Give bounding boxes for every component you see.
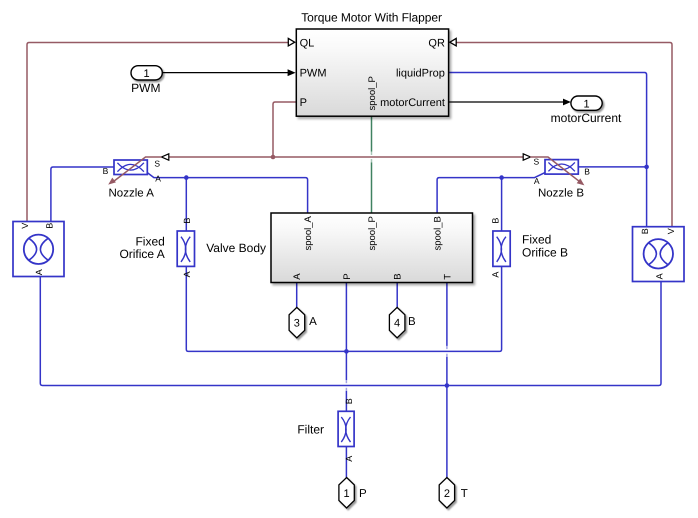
- filter block: [338, 411, 354, 446]
- svg-text:PWM: PWM: [300, 68, 327, 80]
- wire QR (torque motor QR to right spool orifice V): [456, 43, 672, 227]
- junction dot P/S: [271, 155, 276, 160]
- svg-text:A: A: [344, 456, 354, 462]
- svg-text:A: A: [655, 273, 665, 279]
- svg-text:B: B: [393, 273, 404, 279]
- wire filter A to port 1: [345, 447, 347, 478]
- svg-text:motorCurrent: motorCurrent: [380, 97, 445, 109]
- svg-text:spool_A: spool_A: [303, 216, 314, 251]
- wire T line (valve body T to port 2, crossing P rail): [446, 283, 448, 478]
- wire P / S network (torque motor P to nozzle S ports): [169, 102, 523, 157]
- fixed orifice B block: [493, 231, 510, 266]
- svg-text:T: T: [442, 274, 453, 280]
- wire valve body B to port 4: [396, 283, 398, 308]
- svg-text:B: B: [408, 316, 416, 328]
- svg-text:2: 2: [444, 488, 450, 500]
- filter curves: [341, 417, 350, 442]
- svg-text:Filter: Filter: [297, 422, 324, 436]
- svg-text:spool_P: spool_P: [367, 216, 378, 250]
- svg-text:PWM: PWM: [131, 81, 160, 95]
- left spool orifice arcs: [29, 238, 48, 260]
- svg-text:B: B: [490, 218, 500, 224]
- port 1 hexagon P: [339, 478, 354, 509]
- port 2 hexagon T: [439, 478, 454, 509]
- wire PWM signal: [163, 72, 289, 74]
- svg-text:A: A: [182, 271, 192, 277]
- svg-text:V: V: [666, 228, 676, 234]
- svg-text:Valve Body: Valve Body: [206, 241, 266, 255]
- nozzle B variable arrow: [530, 157, 580, 182]
- right spool orifice block: [633, 227, 685, 282]
- wire left orifice B to nozzle A B: [51, 167, 114, 222]
- svg-text:motorCurrent: motorCurrent: [551, 111, 622, 125]
- wire nozzle B B-port to right block B: [578, 166, 646, 168]
- wire P supply rail (orifice A bottom to orifice B bottom): [186, 266, 501, 351]
- nozzle A port labels: [103, 159, 162, 184]
- port 3 hexagon A: [289, 307, 305, 337]
- svg-text:S: S: [534, 157, 540, 167]
- svg-text:Orifice A: Orifice A: [119, 247, 164, 261]
- fixed orifice A curves: [181, 237, 190, 262]
- svg-text:P: P: [342, 273, 353, 279]
- svg-text:QL: QL: [300, 37, 315, 49]
- nozzle B port labels: [534, 157, 591, 186]
- wire QL (torque motor QL to left spool orifice V): [27, 43, 288, 222]
- fixed orifice B curves: [497, 237, 506, 262]
- wire fixed orifice B B-port: [501, 178, 503, 231]
- svg-text:3: 3: [294, 317, 300, 329]
- valve body block: [271, 213, 473, 283]
- svg-text:A: A: [155, 173, 161, 183]
- svg-text:T: T: [461, 488, 468, 500]
- svg-text:liquidProp: liquidProp: [396, 68, 445, 80]
- svg-text:A: A: [292, 273, 303, 280]
- arrowhead motorCurrent: [563, 99, 571, 106]
- nozzle B port triangle S: [523, 154, 530, 160]
- junction dot spool_A / orifice A: [184, 175, 189, 180]
- svg-text:P: P: [300, 97, 307, 109]
- input port PWM: [131, 66, 162, 80]
- svg-text:P: P: [359, 488, 367, 500]
- svg-text:A: A: [34, 269, 44, 275]
- nozzle A variable arrow: [113, 157, 161, 182]
- torque motor port labels: [300, 37, 445, 109]
- wire spool_A (nozzle A A-port to valve body spool_A): [147, 173, 307, 213]
- wire valve body A to port 3: [296, 283, 298, 308]
- svg-text:Nozzle A: Nozzle A: [109, 188, 155, 200]
- right spool orifice arcs: [649, 243, 668, 265]
- svg-text:B: B: [44, 223, 54, 229]
- svg-text:A: A: [309, 316, 317, 328]
- junction dot right B: [644, 165, 649, 170]
- right spool orifice port labels: [640, 228, 676, 279]
- svg-text:B: B: [640, 228, 650, 234]
- svg-text:Torque Motor With Flapper: Torque Motor With Flapper: [301, 11, 442, 25]
- wire motorCurrent signal: [449, 101, 564, 103]
- left spool orifice block: [13, 222, 64, 277]
- svg-text:1: 1: [583, 98, 589, 110]
- arrowhead PWM: [288, 69, 296, 76]
- junction dot T rail: [445, 383, 450, 388]
- svg-text:A: A: [534, 176, 540, 186]
- svg-text:B: B: [103, 166, 109, 176]
- svg-text:S: S: [154, 159, 160, 169]
- junction dot P rail: [344, 349, 349, 354]
- port triangle QR: [450, 38, 456, 46]
- output port motorCurrent: [571, 96, 602, 110]
- svg-text:1: 1: [144, 68, 150, 80]
- svg-text:spool_P: spool_P: [367, 76, 378, 110]
- svg-text:Orifice B: Orifice B: [522, 245, 568, 259]
- wire T return rail (left spool orifice A to right spool orifice A): [40, 277, 661, 386]
- svg-text:A: A: [490, 272, 500, 278]
- junction dot spool_B / orifice B: [499, 175, 504, 180]
- fixed orifice A port labels: [182, 218, 192, 278]
- svg-text:B: B: [584, 167, 590, 177]
- fixed orifice A block: [177, 231, 194, 266]
- port 4 hexagon B: [389, 307, 405, 337]
- svg-text:V: V: [20, 223, 30, 229]
- nozzle B curves: [548, 162, 575, 171]
- port triangle QL: [288, 38, 294, 46]
- wire P line (valve body P to filter B, crossing T rail): [345, 283, 347, 412]
- wire liquidProp (torque motor to right spool orifice B): [449, 73, 647, 227]
- svg-text:B: B: [344, 398, 354, 404]
- svg-text:4: 4: [394, 317, 400, 329]
- valve body rotated port labels: [292, 216, 453, 280]
- filter port labels: [344, 398, 354, 462]
- wire spool_B (valve body to nozzle B A-port): [437, 173, 545, 213]
- left spool orifice port labels: [20, 223, 54, 276]
- nozzle A port triangle S: [162, 154, 169, 160]
- nozzle B block: [545, 160, 578, 175]
- wire spool_P (green, torque motor to valve body): [371, 116, 373, 213]
- svg-text:QR: QR: [428, 37, 445, 49]
- svg-text:B: B: [182, 218, 192, 224]
- nozzle A curves: [117, 163, 143, 172]
- svg-text:spool_B: spool_B: [433, 216, 444, 250]
- svg-text:Nozzle B: Nozzle B: [538, 188, 584, 200]
- fixed orifice B port labels: [490, 218, 500, 278]
- torque motor block: [296, 29, 448, 116]
- nozzle A block: [114, 160, 147, 175]
- svg-text:1: 1: [344, 488, 350, 500]
- wire fixed orifice A B-port: [185, 178, 187, 231]
